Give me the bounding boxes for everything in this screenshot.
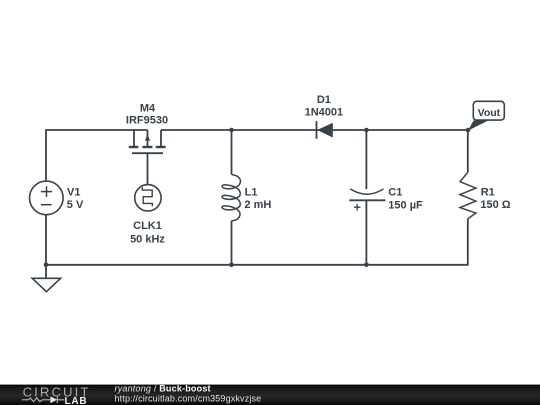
junction node dots (44, 128, 471, 267)
Vout flag pointer (468, 120, 489, 130)
ground wire stub (45, 265, 47, 279)
transistor M4 (PMOS IRF9530) stubs (133, 130, 135, 146)
svg-text:2 mH: 2 mH (244, 199, 271, 211)
M4 bulk arrow (up) (145, 134, 150, 140)
svg-text:L1: L1 (245, 186, 258, 198)
wire L1 bottom (231, 221, 233, 265)
capacitor C1 curved plate (350, 189, 383, 194)
resistor R1 zigzag (460, 172, 476, 218)
ground triangle (32, 278, 60, 291)
wire bottom rail and up to R1 bottom (46, 219, 468, 265)
node L1 top (229, 128, 234, 133)
V1 plus sign (41, 191, 52, 193)
svg-text:ryantong / Buck-boost: ryantong / Buck-boost (115, 384, 211, 394)
svg-text:D1: D1 (317, 94, 331, 106)
svg-text:IRF9530: IRF9530 (126, 115, 168, 127)
svg-text:150 µF: 150 µF (388, 199, 423, 211)
svg-text:150 Ω: 150 Ω (480, 199, 510, 211)
clock source CLK1 circle (135, 185, 161, 211)
node C1 top (364, 128, 369, 133)
svg-text:R1: R1 (481, 186, 495, 198)
svg-text:1N4001: 1N4001 (305, 107, 344, 119)
wire V1 bottom to ground rail (45, 215, 47, 265)
capacitor C1 straight plate (349, 199, 385, 201)
svg-text:http://circuitlab.com/cm359gxk: http://circuitlab.com/cm359gxkvzjse (115, 394, 262, 404)
wire M4 gate to CLK1 (147, 153, 149, 185)
node L1 bottom (229, 263, 234, 268)
wire top rail from M4 drain to Vout corner and down to R1 (161, 130, 468, 172)
svg-text:5 V: 5 V (67, 199, 84, 211)
node ground junction (44, 263, 49, 268)
svg-text:Vout: Vout (478, 107, 501, 119)
capacitor C1 plus sign (354, 206, 361, 208)
wire C1 bottom (365, 200, 367, 264)
diode D1 cathode bar (316, 121, 318, 139)
svg-text:LAB: LAB (65, 396, 88, 405)
node Vout (466, 128, 471, 133)
diode D1 triangle (317, 123, 333, 138)
transistor M4 channel bars (129, 134, 166, 148)
inductor L1 coil (222, 175, 240, 221)
svg-text:CLK1: CLK1 (133, 220, 162, 232)
svg-text:M4: M4 (140, 102, 156, 114)
logo diode triangle (50, 396, 57, 403)
svg-text:V1: V1 (67, 186, 80, 198)
wire top-left from V1 up and right to M4 source (46, 130, 148, 181)
Vout flag box (473, 101, 504, 120)
wire C1 top (365, 130, 367, 189)
svg-text:50 kHz: 50 kHz (130, 233, 165, 245)
wire L1 top (231, 130, 233, 175)
svg-text:C1: C1 (388, 187, 402, 199)
clock CLK1 squarewave symbol (142, 187, 152, 206)
transistor M4 gate line (132, 152, 163, 154)
node C1 bottom (364, 263, 369, 268)
V1 minus sign (41, 204, 52, 206)
CircuitLab logo waveform: line, resistor zigzag, diode, line (22, 397, 64, 403)
voltage source V1 circle (30, 181, 64, 215)
